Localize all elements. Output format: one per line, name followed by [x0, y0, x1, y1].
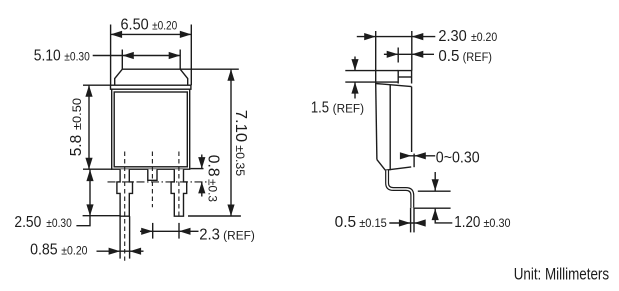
- centerline lead2 dashed: [151, 152, 153, 208]
- dimension 1.20: extension lines: [418, 190, 451, 192]
- svg-text:(REF): (REF): [333, 104, 364, 116]
- dimension 0.5REF: extension line: [397, 48, 399, 63]
- dimension 0.5±0.15: shafts: [389, 222, 425, 224]
- svg-text:±0.15: ±0.15: [359, 218, 387, 230]
- front view body inner line: [114, 92, 187, 167]
- side lead gull-wing: [387, 170, 412, 208]
- arrowheads: [85, 31, 438, 255]
- dimension 6.50: dim line: [111, 33, 192, 35]
- svg-text:±0.30: ±0.30: [64, 51, 90, 63]
- svg-text:2.50: 2.50: [14, 214, 41, 231]
- svg-text:0.8: 0.8: [204, 155, 221, 177]
- svg-text:5.8: 5.8: [68, 135, 85, 157]
- side tab step: [398, 71, 411, 84]
- dimension 0.85: extension lines: [119, 216, 121, 258]
- side body right face upper: [411, 87, 413, 152]
- dimension 0.85: shafts: [97, 250, 144, 252]
- front view flange step: [111, 85, 191, 89]
- dimension 0.8: shafts: [201, 155, 203, 169]
- dimension 5.10: extension lines: [121, 50, 123, 70]
- svg-text:1.5: 1.5: [311, 100, 329, 117]
- dimension 0.8: extension line: [191, 168, 204, 170]
- svg-text:Unit: Millimeters: Unit: Millimeters: [514, 266, 609, 284]
- dimension 7.10: dim line: [230, 69, 232, 216]
- svg-text:(REF): (REF): [463, 52, 493, 64]
- dimension 1.5REF: extension lines: [345, 70, 398, 72]
- svg-text:2.3: 2.3: [199, 227, 220, 244]
- svg-text:±0.30: ±0.30: [484, 218, 511, 230]
- side body outline: [376, 84, 412, 87]
- centerline lead3 dashed: [178, 152, 180, 217]
- svg-text:6.50: 6.50: [121, 17, 150, 34]
- lead 2 center stub: [148, 169, 157, 180]
- dimension 2.30: extension lines: [375, 31, 377, 84]
- dimension 2.50: extension line: [83, 215, 120, 217]
- dimension 2.3: extension lines: [152, 223, 154, 239]
- svg-text:±0.3: ±0.3: [205, 179, 217, 202]
- dimension 0.5REF: dim line: [384, 53, 434, 55]
- dimension 0.5±0.15: extension lines: [410, 208, 412, 233]
- dimension 1.20: shafts + leader: [434, 172, 436, 191]
- svg-text:0~0.30: 0~0.30: [436, 149, 480, 166]
- svg-text:±0.30: ±0.30: [46, 218, 72, 230]
- svg-text:0.5: 0.5: [438, 48, 459, 65]
- side view body: [376, 71, 414, 208]
- lead 3 right: [171, 169, 187, 216]
- dimension 5.8: extension line top: [83, 84, 112, 86]
- dimension 5.10: dim line + leader: [93, 55, 181, 57]
- lead 1 left: [117, 169, 133, 216]
- svg-text:±0.20: ±0.20: [152, 21, 177, 33]
- side tab back face lower: [413, 154, 415, 168]
- dimension 2.3: shafts: [140, 230, 199, 232]
- svg-text:0.85: 0.85: [30, 242, 58, 259]
- front view body outer: [112, 89, 190, 169]
- svg-text:±0.20: ±0.20: [61, 246, 87, 258]
- svg-text:±0.20: ±0.20: [471, 32, 497, 44]
- svg-text:(REF): (REF): [223, 231, 255, 243]
- dimension 6.50: extension lines: [110, 25, 112, 86]
- dimension 0~0.30: shafts: [403, 155, 436, 157]
- dimension 2.30: dim line: [357, 36, 436, 38]
- svg-text:±0.50: ±0.50: [72, 98, 84, 130]
- svg-text:7.10: 7.10: [232, 110, 249, 143]
- svg-text:2.30: 2.30: [438, 28, 467, 45]
- side body inner vertical: [389, 85, 391, 170]
- dimension 2.50: dim line: [89, 169, 91, 216]
- dimension 2.50: leader: [76, 216, 90, 226]
- dimension 1.5REF: shafts: [354, 57, 356, 71]
- dimension 5.8: dim line: [88, 85, 90, 169]
- svg-text:5.10: 5.10: [34, 47, 61, 64]
- crimp dash-dot line: [108, 181, 209, 183]
- svg-text:±0.35: ±0.35: [233, 145, 245, 176]
- svg-text:1.20: 1.20: [454, 214, 480, 231]
- centerline lead1 dashed: [124, 152, 126, 261]
- dimension 5.8: extension line bottom: [83, 168, 112, 170]
- dimension 7.10: extension lines: [180, 68, 239, 70]
- front view tab trapezoid: [115, 69, 188, 85]
- svg-text:0.5: 0.5: [335, 214, 357, 231]
